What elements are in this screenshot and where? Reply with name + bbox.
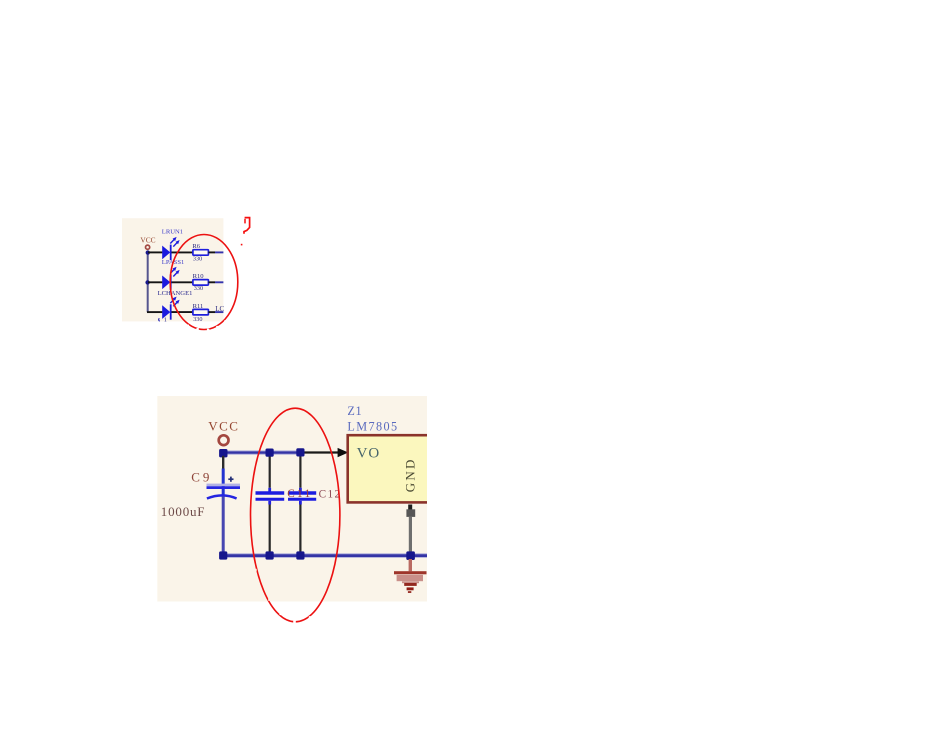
- junction node bottom GND: [406, 551, 415, 560]
- svg-text:VO: VO: [357, 446, 381, 462]
- voltage regulator Z1 value LM7805: [347, 419, 398, 433]
- svg-text:VCC: VCC: [208, 419, 239, 434]
- resistor R6: [193, 250, 209, 256]
- svg-text:LC: LC: [215, 305, 224, 313]
- svg-text:1: 1: [164, 317, 167, 324]
- wire row3 right: [208, 311, 223, 313]
- LED D row3: [162, 297, 179, 320]
- resistor R10 value 330: [194, 285, 203, 292]
- capacitor C9 (electrolytic): [207, 456, 241, 554]
- bottom schematic fragment background: [157, 396, 427, 602]
- wire row1 middle: [172, 251, 193, 253]
- wire row1 right: [208, 251, 223, 253]
- regulator GND pin and pad: [406, 505, 415, 555]
- power port VCC circle (top fragment): [146, 245, 150, 249]
- junction node bottom C12: [296, 551, 304, 559]
- white mask beyond schematic clip edge: [427, 392, 946, 608]
- junction node bottom C11: [266, 551, 274, 559]
- svg-text:VCC: VCC: [140, 236, 155, 245]
- power port VCC circle (bottom fragment): [219, 435, 229, 445]
- LED LCHANGE1 label: [158, 290, 193, 297]
- LED row3 partial designator: [159, 317, 167, 324]
- svg-text:LCHANGE1: LCHANGE1: [158, 290, 193, 297]
- net label VCC (top fragment): [140, 236, 155, 245]
- voltage regulator Z1 designator: [347, 404, 362, 418]
- wire VCC vertical bus: [147, 253, 149, 313]
- svg-text:C9: C9: [191, 470, 212, 485]
- wire bottom horizontal (blue): [222, 553, 427, 558]
- regulator pin name GND (rotated): [403, 457, 418, 492]
- junction node top C11: [266, 449, 274, 457]
- svg-text:LRUN1: LRUN1: [162, 229, 183, 236]
- wire row2 middle: [172, 281, 193, 283]
- capacitor C9 polarity plus: [228, 477, 233, 482]
- net label VCC (bottom fragment): [208, 419, 239, 434]
- resistor R10 label: [193, 273, 205, 280]
- wire pin to regulator (black) with arrow: [301, 448, 349, 457]
- svg-text:330: 330: [194, 285, 203, 292]
- capacitor C12: [288, 457, 316, 553]
- junction node row2: [145, 280, 149, 284]
- net label LC: [215, 305, 224, 313]
- annotation red ellipse (top fragment): [170, 235, 238, 332]
- wire row1 left: [148, 251, 162, 253]
- LED D row2: [162, 267, 179, 290]
- capacitor C9 label: [191, 470, 212, 485]
- svg-text:330: 330: [193, 255, 202, 262]
- svg-text:330: 330: [193, 316, 202, 323]
- voltage regulator Z1 body: [348, 435, 433, 502]
- resistor R11 value 330: [193, 316, 202, 323]
- top schematic fragment background: [122, 218, 223, 321]
- wire row3 left: [147, 311, 162, 313]
- capacitor C11 label: [287, 488, 312, 500]
- junction node bottom corner C9: [219, 551, 227, 559]
- junction node top C12: [296, 448, 304, 456]
- wire row3 middle: [172, 311, 193, 313]
- capacitor C9 value 1000uF: [161, 504, 206, 519]
- junction node top VCC: [219, 449, 227, 457]
- svg-text:Z1: Z1: [347, 404, 362, 418]
- resistor R6 value 330: [193, 255, 202, 262]
- resistor R11: [193, 309, 209, 315]
- capacitor C12 label: [319, 489, 342, 501]
- svg-text:LM7805: LM7805: [347, 419, 398, 433]
- wire top horizontal (blue): [222, 450, 301, 454]
- wire row2 right: [208, 281, 223, 283]
- annotation red ellipse (bottom fragment): [251, 408, 340, 623]
- annotation red squiggle: [241, 218, 250, 246]
- regulator pin name VO: [357, 446, 381, 462]
- resistor R6 label: [192, 243, 200, 250]
- LED LRUN1 label: [162, 229, 183, 236]
- svg-text:1000uF: 1000uF: [161, 504, 206, 519]
- capacitor C11: [256, 457, 285, 553]
- svg-text:C11: C11: [287, 488, 312, 500]
- resistor R11 label: [193, 303, 204, 310]
- junction node row1: [146, 250, 150, 254]
- resistor R10: [193, 280, 209, 286]
- LED D row1: [162, 237, 179, 260]
- wire row2 left: [148, 281, 162, 283]
- LED LPASS1 label: [162, 259, 184, 266]
- ground symbol: [394, 559, 427, 593]
- svg-text:GND: GND: [403, 457, 418, 492]
